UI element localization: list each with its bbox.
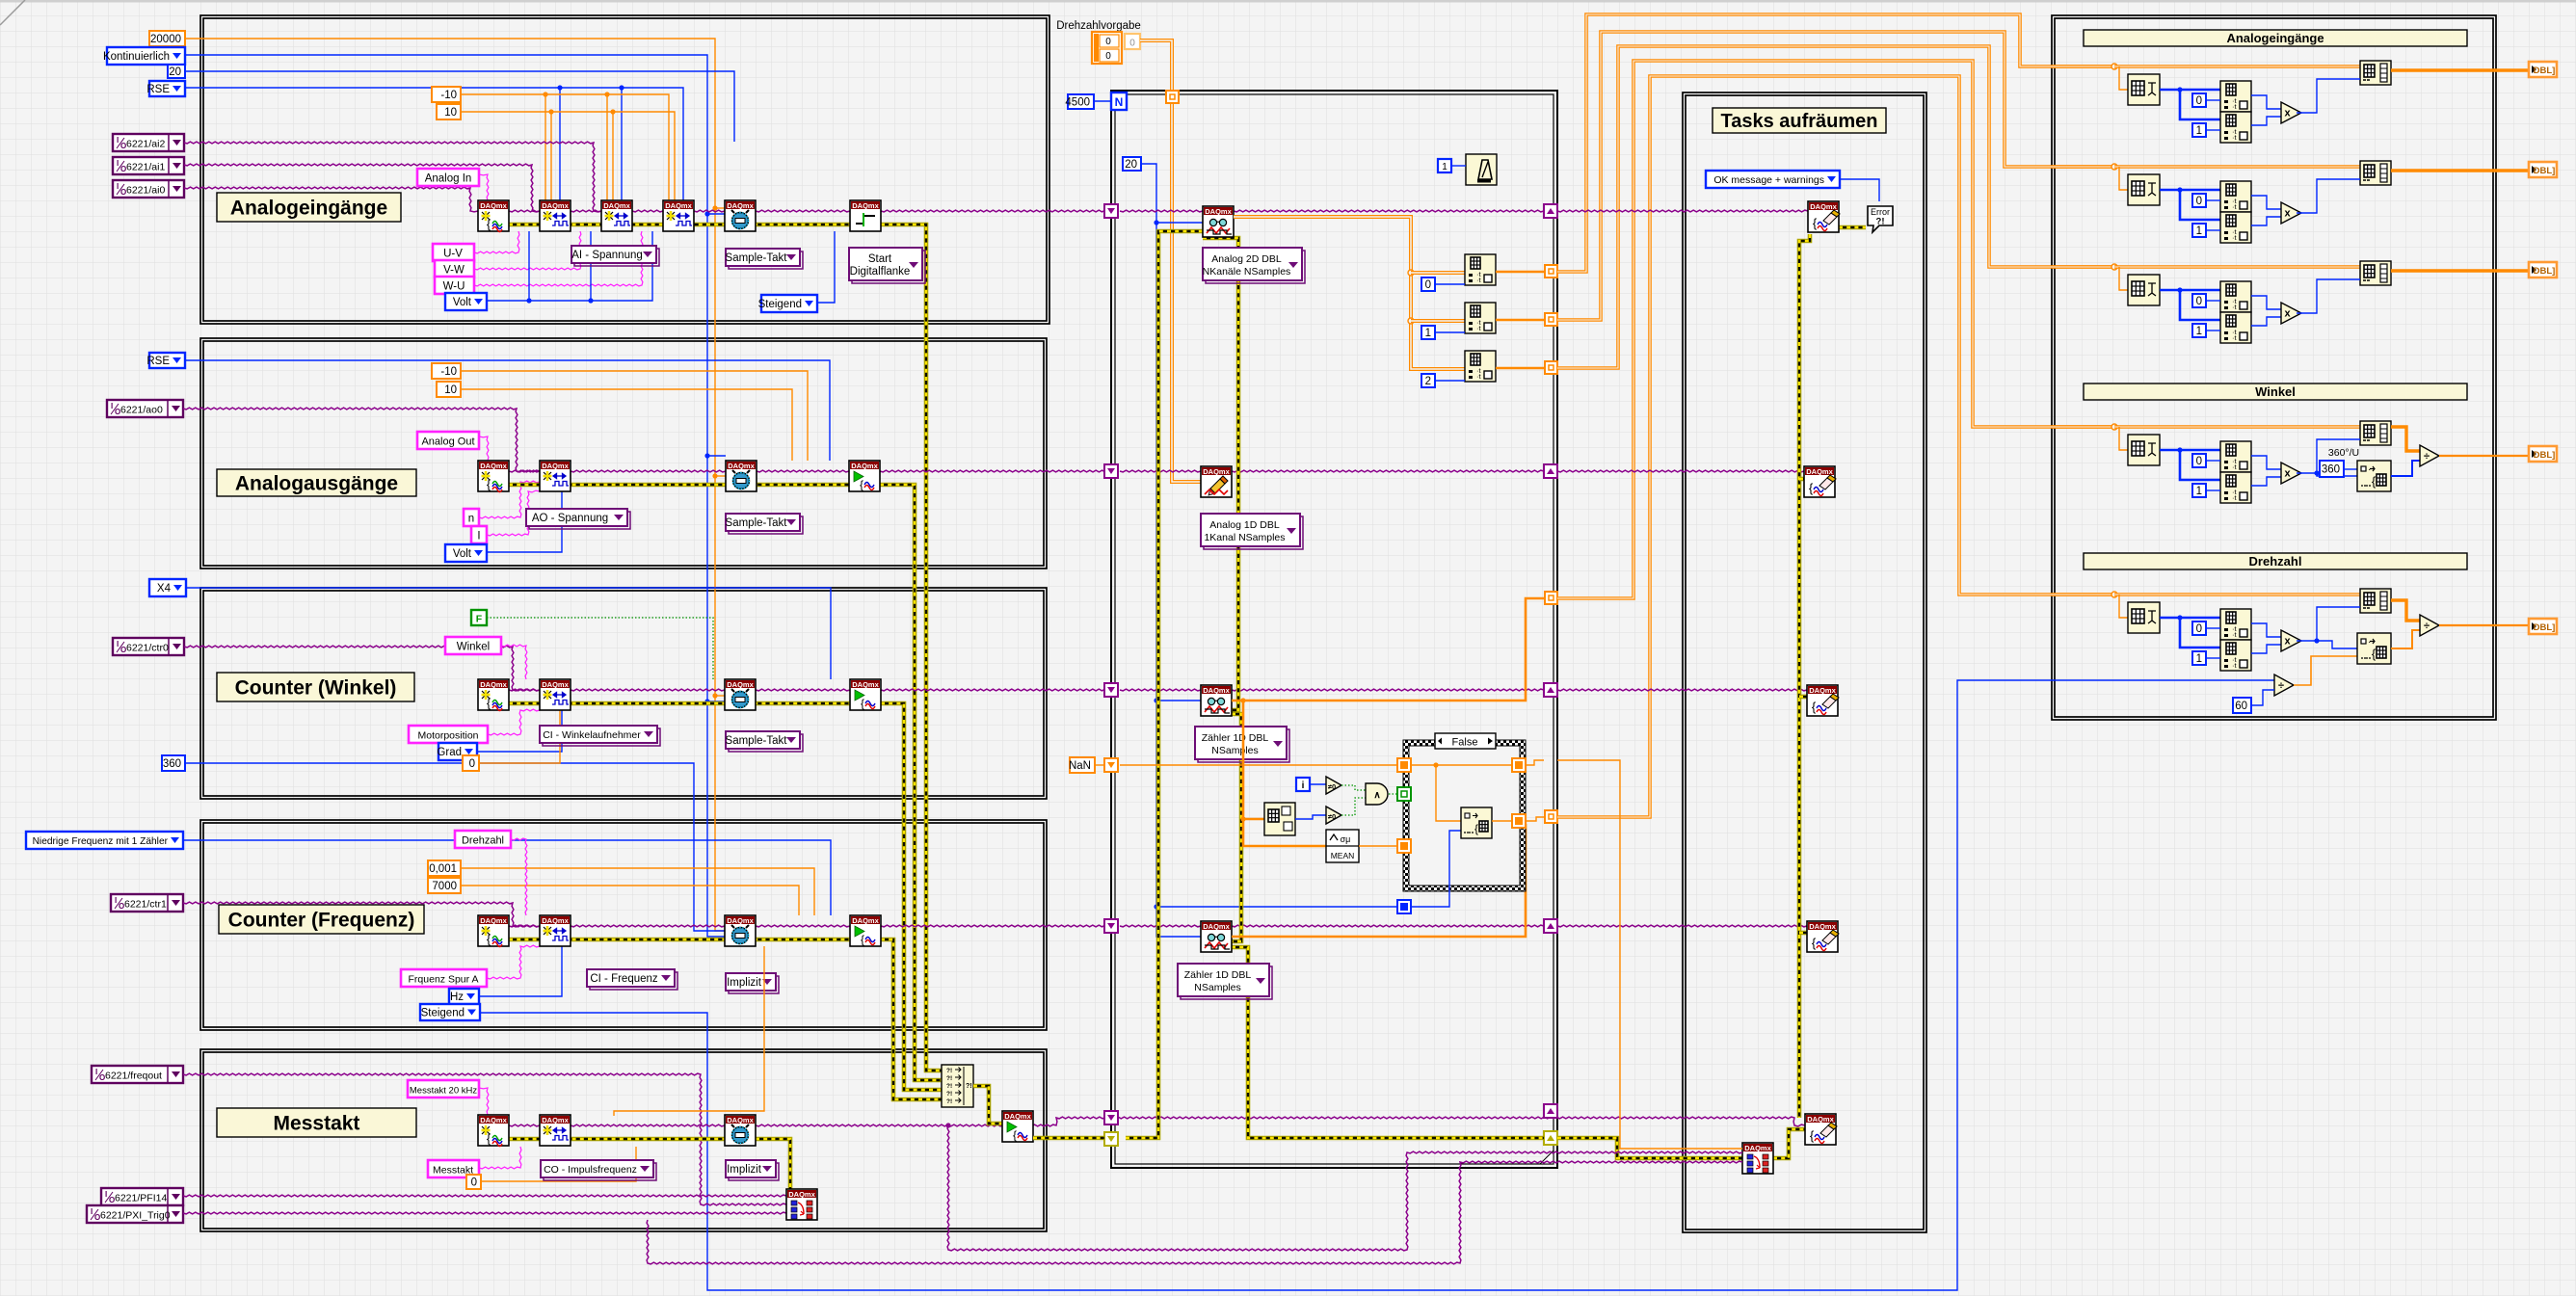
DAQmx create channel AI 3	[663, 200, 694, 231]
junction 20000 F1	[712, 205, 725, 210]
svg-text:0,001: 0,001	[429, 863, 457, 875]
task wire frame2 to loop	[880, 470, 1108, 472]
device constant 6221/ai1	[113, 157, 184, 174]
wire messtakt freq up	[614, 946, 764, 1116]
DAQmx create task CI winkel	[478, 679, 509, 711]
svg-text:Analogeingänge: Analogeingänge	[2226, 31, 2324, 45]
1D array wire idx0 out	[1496, 271, 1545, 274]
error wire read3 out	[1232, 947, 1544, 1138]
error stub clear4	[1799, 931, 1807, 936]
build array node AI2	[2360, 261, 2391, 285]
not-equal-zero node 1	[1326, 777, 1341, 794]
frame: right results section	[2052, 15, 2496, 720]
wire idx a out winkel	[2251, 456, 2281, 469]
svg-text:0: 0	[471, 1177, 477, 1189]
bool wire 1	[1341, 785, 1366, 790]
svg-text:DAQmx: DAQmx	[542, 680, 569, 689]
svg-text:σμ: σμ	[1341, 834, 1351, 844]
for loop frame	[1111, 91, 1557, 1168]
wire Messtakt 20kHz	[479, 1088, 489, 1115]
error wire read1 out	[1201, 238, 1238, 710]
case tunnel mean	[1397, 839, 1411, 853]
wire X4	[186, 588, 831, 679]
svg-text:1: 1	[2196, 225, 2202, 237]
svg-text:I: I	[117, 640, 119, 648]
junction 20000 F2	[712, 473, 726, 478]
frame: Counter (Frequenz) section	[200, 820, 1047, 1030]
junction Kontinuierlich F2	[704, 453, 726, 458]
constant 20	[168, 65, 185, 78]
svg-text:x: x	[2284, 468, 2291, 480]
tunnel task CO right	[1544, 1104, 1557, 1118]
wire 4500 to N	[1094, 100, 1111, 102]
case structure	[1403, 740, 1526, 891]
array wire bundle 1	[1557, 14, 2114, 272]
svg-text:I: I	[105, 1190, 107, 1199]
task wire frame3 c	[756, 689, 850, 691]
svg-text:1: 1	[2196, 653, 2202, 665]
wire idx b out AI2	[2251, 317, 2281, 326]
orange array wire into row winkel	[2052, 425, 2114, 429]
wire reshape out winkel	[2391, 461, 2420, 476]
svg-text:360: 360	[2322, 464, 2340, 476]
ring Zaehler 1D DBL NSamples row4	[1178, 964, 1272, 999]
DAQmx start CI winkel	[850, 679, 881, 710]
svg-text:RSE: RSE	[146, 84, 170, 95]
DAQmx create channel AI 1	[540, 200, 571, 231]
DAQmx read CI freq	[1201, 921, 1232, 952]
merge errors node	[942, 1065, 973, 1107]
svg-text:DAQmx: DAQmx	[480, 680, 507, 689]
DAQmx connect terminals	[786, 1189, 817, 1220]
boolean constant F	[471, 610, 487, 625]
reshape node winkel	[2357, 461, 2391, 491]
svg-text:6221/ai1: 6221/ai1	[126, 162, 165, 173]
wire const0 winkel	[2206, 460, 2220, 462]
svg-text:V-W: V-W	[443, 265, 465, 277]
ring Zaehler 1D DBL NSamples row3	[1195, 727, 1289, 762]
svg-text:Niedrige Frequenz mit 1 Zähler: Niedrige Frequenz mit 1 Zähler	[33, 836, 169, 847]
case out wire1	[1492, 820, 1512, 822]
string constant U-V	[433, 244, 474, 261]
svg-text:?!: ?!	[946, 1098, 952, 1105]
svg-text:1: 1	[2196, 125, 2202, 137]
task wire to clear4	[1557, 925, 1807, 927]
wire n	[479, 481, 540, 518]
wire 7000	[461, 886, 799, 915]
string constant Analog In	[417, 169, 479, 186]
label: Messtakt	[217, 1108, 416, 1137]
tunnel array out winkel	[1545, 592, 1557, 604]
wire const0 drehzahl	[2206, 627, 2220, 629]
svg-text:{: {	[861, 697, 864, 710]
ring Sample-Takt frame3	[726, 731, 803, 752]
error merge out	[973, 1086, 1002, 1124]
svg-text:NSamples: NSamples	[1194, 982, 1240, 993]
svg-text:False: False	[1452, 737, 1478, 749]
svg-text:i: i	[1302, 780, 1305, 791]
wire Hz	[479, 946, 562, 996]
svg-text:DAQmx: DAQmx	[1203, 467, 1230, 476]
orange array wire into row AI1	[2052, 165, 2114, 169]
constant 1 row AI0	[2192, 123, 2206, 137]
svg-text:6221/ao0: 6221/ao0	[120, 405, 163, 416]
wire Frquenz Spur A	[487, 945, 540, 979]
DAQmx create task CO	[478, 1115, 509, 1147]
case tunnel out2	[1512, 814, 1526, 828]
wire idx b out AI0	[2251, 117, 2281, 125]
constant 1 index	[1421, 326, 1435, 339]
wire idx b out winkel	[2251, 477, 2281, 486]
svg-text:0: 0	[2196, 95, 2202, 107]
wire 20 to timing	[185, 71, 734, 142]
task wire frame4 to loop	[881, 925, 1108, 927]
case tunnel nan	[1397, 758, 1411, 772]
constant 10	[437, 104, 461, 119]
svg-text:{: {	[1812, 700, 1817, 714]
wire RSE branch 2	[619, 85, 624, 200]
shift register right row 4	[1544, 919, 1557, 933]
task wire to clear1	[1557, 210, 1808, 212]
indicator DBL AI0	[2529, 62, 2557, 77]
frame: Messtakt section	[200, 1049, 1047, 1231]
svg-text:·: ·	[2368, 464, 2371, 475]
svg-text:{: {	[487, 696, 491, 710]
svg-text:Winkel: Winkel	[2255, 384, 2296, 399]
svg-text:≠0: ≠0	[1328, 782, 1336, 791]
array wire bundle 5	[1557, 76, 2114, 817]
wire ok to cloud	[1840, 179, 1879, 201]
constant 1 row winkel	[2192, 484, 2206, 497]
index array AI0 b	[2220, 112, 2251, 143]
svg-text:DAQmx: DAQmx	[542, 1116, 569, 1124]
svg-text:360: 360	[163, 758, 181, 770]
row winkel wire to build array	[2114, 425, 2360, 429]
ring RSE 2	[146, 353, 185, 368]
svg-text:I: I	[115, 896, 117, 905]
svg-text:RSE: RSE	[146, 356, 170, 367]
task wire frame1 b	[571, 210, 601, 212]
svg-text:?!: ?!	[946, 1083, 952, 1090]
wire 60	[2251, 690, 2274, 705]
svg-text:DAQmx: DAQmx	[852, 201, 879, 210]
junction drehzahl multiply	[2314, 638, 2319, 643]
device constant 6221/ao0	[107, 400, 183, 417]
wire winkel multiply out	[2297, 472, 2317, 474]
junction read2 out	[1240, 698, 1245, 702]
row AI0 blue main	[2160, 89, 2220, 92]
interpolate waveform node AI1	[2128, 174, 2160, 205]
wire ai0 task	[184, 187, 478, 212]
svg-text:Drehzahlvorgabe: Drehzahlvorgabe	[1056, 20, 1141, 32]
svg-text:360°/U: 360°/U	[2328, 447, 2359, 459]
svg-text:DAQmx: DAQmx	[1809, 686, 1836, 695]
error chain tasks	[1799, 234, 1810, 1118]
row AI2 drop to interp	[2119, 267, 2128, 290]
2D array wire read1	[1234, 217, 1465, 369]
svg-text:Analog Out: Analog Out	[421, 436, 474, 448]
ring Start Digitalflanke	[849, 248, 925, 283]
cluster constant Drehzahlvorgabe	[1092, 32, 1122, 64]
ring Niedrige Frequenz	[26, 832, 183, 849]
bool wire to case	[1389, 793, 1397, 795]
ring Grad	[437, 743, 477, 760]
task wire frame2	[509, 470, 540, 472]
device constant 6221/ctr0	[113, 638, 184, 655]
svg-text:60: 60	[2235, 701, 2247, 712]
bar: Winkel	[2084, 384, 2467, 400]
wire 360 long	[185, 763, 725, 931]
svg-text:DBL]: DBL]	[2534, 266, 2556, 277]
svg-text:Steigend: Steigend	[758, 299, 802, 310]
index array winkel b	[2220, 472, 2251, 503]
svg-text:?!: ?!	[946, 1075, 952, 1082]
purple long row B	[647, 1161, 1742, 1264]
bool wire 2	[1341, 798, 1366, 815]
task wire frame4 b	[571, 925, 725, 927]
wire Volt branch 2	[588, 231, 593, 304]
wire idx a out drehzahl	[2251, 623, 2281, 637]
wire const1 AI0	[2206, 129, 2220, 131]
label: Analogausgaenge	[217, 469, 416, 496]
wire drehzahl result	[2439, 624, 2529, 626]
constant 0 row drehzahl	[2192, 622, 2206, 635]
svg-text:{: {	[1809, 481, 1814, 495]
wire U-V	[474, 231, 519, 253]
array wire bundle 3	[1557, 46, 2114, 368]
svg-text:4500: 4500	[1065, 97, 1090, 109]
svg-text:Digitalflanke: Digitalflanke	[850, 266, 911, 278]
row AI0 junction	[2111, 64, 2117, 69]
wire Steigend frame1	[817, 231, 835, 303]
svg-text:Error: Error	[1871, 207, 1890, 217]
svg-text:DAQmx: DAQmx	[851, 462, 878, 470]
svg-text:0: 0	[2196, 196, 2202, 207]
svg-text:20000: 20000	[150, 34, 181, 45]
constant 4500	[1065, 94, 1094, 109]
shift register right row 2	[1544, 464, 1557, 478]
string constant Analog Out	[417, 432, 479, 449]
string constant W-U	[435, 277, 474, 294]
svg-text:6221/ai0: 6221/ai0	[126, 185, 165, 197]
svg-text:DBL]: DBL]	[2534, 450, 2556, 461]
svg-text:DAQmx: DAQmx	[1809, 922, 1836, 931]
row AI2 wire to build array	[2114, 265, 2360, 269]
error wire frame5 to route	[756, 1139, 790, 1189]
DAQmx create task CI freq	[478, 915, 509, 947]
error start5 to loop	[1033, 1136, 1104, 1141]
svg-text:Analog 1D DBL: Analog 1D DBL	[1209, 519, 1280, 531]
wire freqout task	[183, 1073, 786, 1205]
ring RSE	[146, 81, 185, 96]
wire 20 samples	[1141, 164, 1201, 937]
row AI2 junction	[2111, 264, 2117, 270]
row AI1 blue branch	[2177, 187, 2220, 220]
svg-text:Messtakt: Messtakt	[274, 1113, 360, 1135]
task wire frame5 to loop	[756, 1117, 1805, 1126]
array wire bundle 2	[1557, 32, 2114, 320]
wire const0 AI0	[2206, 99, 2220, 101]
svg-text:1: 1	[1442, 162, 1447, 172]
device constant 6221/ai0	[113, 180, 184, 198]
task wire frame1 d	[694, 210, 725, 212]
svg-text:I: I	[117, 182, 119, 191]
svg-text:{: {	[2372, 474, 2377, 489]
svg-text:CI - Winkelaufnehmer: CI - Winkelaufnehmer	[543, 729, 641, 741]
label: Counter (Frequenz)	[219, 905, 424, 934]
wire size to neq2	[1295, 815, 1326, 819]
ring Sample-Takt frame1	[726, 249, 803, 269]
constant 1 row AI1	[2192, 224, 2206, 237]
purple long row A	[947, 1125, 1742, 1251]
task wire loop row4	[1120, 925, 1201, 927]
svg-text:?!: ?!	[966, 1083, 972, 1090]
mean node	[1326, 830, 1359, 862]
task wire frame1	[509, 210, 540, 212]
wire drehzahl mult to reshape	[2317, 641, 2357, 648]
constant 2 index	[1421, 374, 1435, 387]
wire ctr1 task	[183, 902, 540, 927]
error wire frame4 down	[881, 939, 942, 1099]
multiply node winkel	[2281, 463, 2301, 484]
svg-text:Drehzahl: Drehzahl	[2249, 554, 2302, 569]
svg-text:Analogeingänge: Analogeingänge	[230, 198, 387, 220]
task wire loop row1	[1120, 210, 1203, 212]
case out to tunnel1	[1526, 760, 1544, 765]
shift register left row 2	[1104, 464, 1118, 478]
svg-text:AO - Spannung: AO - Spannung	[532, 513, 608, 524]
svg-text:20: 20	[1125, 159, 1137, 171]
multiply node AI0	[2281, 102, 2301, 123]
row winkel drop to interp	[2119, 427, 2128, 450]
wire reshape out drehzahl	[2391, 630, 2420, 648]
interpolate waveform node AI0	[2128, 74, 2160, 105]
svg-text:2: 2	[1425, 376, 1431, 387]
divide node winkel	[2420, 445, 2439, 466]
indicator DBL AI1	[2529, 162, 2557, 177]
constant 0,001	[428, 860, 461, 876]
indicator DBL drehzahl	[2529, 619, 2557, 634]
wire 10b	[461, 389, 792, 461]
array size node	[1264, 803, 1295, 835]
svg-text:0: 0	[1105, 37, 1111, 47]
task wire frame3 b	[571, 689, 725, 691]
string constant I	[471, 526, 487, 543]
svg-text:N: N	[1115, 95, 1124, 109]
wire Messtakt label	[479, 1147, 521, 1169]
ring Sample-Takt frame2	[726, 514, 803, 534]
wire Analog In	[479, 174, 489, 200]
string constant Messtakt 20 kHz	[408, 1080, 479, 1098]
wire Grad	[477, 710, 562, 752]
svg-text:DAQmx: DAQmx	[542, 916, 569, 925]
wire multiply out AI2	[2297, 279, 2360, 313]
wire -10 branch 1	[543, 92, 547, 200]
svg-text:Analogausgänge: Analogausgänge	[235, 473, 398, 495]
constant 0 row AI0	[2192, 93, 2206, 107]
svg-text:{: {	[487, 1131, 491, 1146]
shift register left row 1	[1104, 204, 1118, 218]
svg-text:Frquenz Spur A: Frquenz Spur A	[409, 974, 479, 986]
index array AI2 a	[2220, 281, 2251, 312]
ring Volt 2	[445, 544, 487, 562]
build array node drehzahl	[2360, 589, 2391, 613]
svg-text:{: {	[860, 478, 863, 491]
case tunnel out1	[1512, 758, 1526, 772]
svg-text:OK message + warnings: OK message + warnings	[1713, 174, 1824, 186]
row winkel blue main	[2160, 449, 2220, 452]
svg-text:-10: -10	[440, 90, 457, 101]
svg-text:NKanäle NSamples: NKanäle NSamples	[1203, 266, 1291, 278]
task wire loop row1 b	[1234, 210, 1544, 212]
svg-text:10: 10	[444, 107, 457, 119]
top-left diagram origin corner marker	[0, 0, 25, 25]
svg-text:Counter (Winkel): Counter (Winkel)	[235, 677, 397, 700]
tunnel error out right	[1544, 1131, 1557, 1145]
divide node drehzahl	[2420, 615, 2439, 636]
constant 7000	[428, 878, 461, 893]
wire RSE2	[185, 360, 830, 461]
constant 60	[2233, 698, 2251, 713]
svg-text:6221/ctr0: 6221/ctr0	[126, 643, 169, 654]
case tunnel sel	[1397, 787, 1411, 801]
svg-text:0: 0	[1105, 51, 1111, 62]
svg-text:Analog In: Analog In	[425, 173, 472, 185]
svg-text:DAQmx: DAQmx	[1806, 467, 1833, 476]
svg-text:{: {	[861, 933, 864, 946]
array wire to mean	[1243, 701, 1326, 846]
svg-text:-10: -10	[440, 366, 457, 378]
wire winkel mult to reshape	[2317, 473, 2357, 476]
multiply node AI1	[2281, 202, 2301, 224]
index array AI0 a	[2220, 81, 2251, 112]
DAQmx clear task 1	[1808, 201, 1840, 232]
wire Volt2	[487, 491, 562, 552]
DAQmx clear task 5	[1805, 1114, 1837, 1145]
label: Analogeingaenge	[217, 193, 401, 222]
string constant V-W	[435, 260, 474, 278]
svg-text:?!: ?!	[946, 1068, 952, 1074]
row drehzahl drop to interp	[2119, 595, 2128, 618]
for loop count terminal N	[1111, 93, 1127, 110]
label: Tasks aufraeumen	[1713, 108, 1886, 133]
svg-text:6221/freqout: 6221/freqout	[105, 1071, 162, 1082]
bar: Analogeingaenge (right)	[2084, 30, 2467, 46]
task wire loop row2 b	[1232, 470, 1544, 472]
error wire frame4	[509, 938, 850, 942]
constant 1 row drehzahl	[2192, 651, 2206, 665]
svg-text:DAQmx: DAQmx	[1203, 922, 1230, 931]
svg-text:I: I	[91, 1207, 93, 1216]
svg-text:{: {	[487, 932, 491, 946]
array wire bundle 4	[1557, 61, 2114, 598]
constant 0 messtakt	[466, 1175, 481, 1189]
svg-text:?!: ?!	[1876, 217, 1885, 227]
string constant Frquenz Spur A	[401, 969, 487, 987]
svg-text:DAQmx: DAQmx	[1205, 207, 1232, 216]
constant 360 winkel	[2320, 461, 2344, 477]
string constant Messtakt	[428, 1160, 479, 1177]
ring AI - Spannung	[571, 246, 659, 266]
top window edge strip	[0, 0, 2576, 3]
DAQmx read AI	[1203, 206, 1234, 237]
tunnel queue in	[1166, 91, 1179, 103]
index array AI1 a	[2220, 181, 2251, 212]
wire 0 winkel	[479, 710, 560, 763]
svg-text:x: x	[2284, 108, 2291, 119]
svg-text:1Kanal NSamples: 1Kanal NSamples	[1204, 532, 1285, 543]
wire Drehzahl label	[511, 838, 527, 915]
